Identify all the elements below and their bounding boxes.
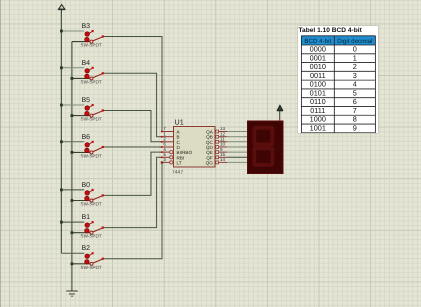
table grid xyxy=(298,26,378,133)
wire: bus to B3 upper throw xyxy=(61,30,84,32)
data table: Tabel 1.10 BCD 4-bit xyxy=(298,26,378,133)
ground symbol at bottom of rail xyxy=(66,291,78,296)
wire: QF output to display segment xyxy=(227,156,248,158)
pin 14 (QG) right stub with bubble xyxy=(206,157,227,165)
wire: B0 pole to 7447 pin xyxy=(104,152,162,195)
pin 1 (B) left stub xyxy=(161,131,180,139)
wire: B3 pole to 7447 pin xyxy=(104,37,162,132)
power terminal (up arrow) above display xyxy=(277,105,283,121)
junction on ground rail at B5 xyxy=(71,114,74,117)
switch B0 (SW-SPDT) xyxy=(81,182,104,207)
svg-text:4: 4 xyxy=(352,79,356,88)
svg-text:B4: B4 xyxy=(82,60,91,67)
left window edge line xyxy=(0,0,2,307)
wire: left vertical bus from power terminal down to B2 xyxy=(60,12,62,253)
svg-text:14: 14 xyxy=(220,157,226,162)
junction on bus at B0 xyxy=(60,189,63,192)
svg-text:SW-SPDT: SW-SPDT xyxy=(81,153,102,158)
svg-text:7447: 7447 xyxy=(172,170,183,176)
wire: ground rail to B1 lower throw xyxy=(72,232,90,234)
wire: bus to B4 upper throw xyxy=(61,67,84,69)
switch B1 (SW-SPDT) xyxy=(81,214,104,239)
svg-text:B0: B0 xyxy=(82,182,91,189)
wire: bus to B1 upper throw xyxy=(61,221,84,223)
svg-text:8: 8 xyxy=(352,114,356,123)
junction: B2 wire corner at LT pin xyxy=(161,161,163,163)
pin 12 (QB) right stub with bubble xyxy=(206,131,227,139)
junction on ground rail at B6 xyxy=(71,151,74,154)
7-segment display body xyxy=(248,121,284,174)
wire: B1 pole to 7447 pin xyxy=(104,157,162,227)
wire: B6 pole to 7447 pin xyxy=(104,146,162,148)
pin 7 (A) left stub xyxy=(161,126,181,134)
wire: ground rail to B5 lower throw xyxy=(72,115,90,117)
wire: ground rail to B4 lower throw xyxy=(72,77,90,79)
svg-text:0000: 0000 xyxy=(309,44,325,53)
svg-text:6: 6 xyxy=(352,97,356,106)
wire: ground rail to B0 lower throw xyxy=(72,200,90,202)
junction on bus at B3 xyxy=(60,30,63,33)
svg-text:0001: 0001 xyxy=(309,53,325,62)
svg-text:LT: LT xyxy=(177,160,182,165)
table title xyxy=(299,27,362,34)
wire: bus to B6 upper throw xyxy=(61,141,84,143)
pin 4 (BI/RBO) left stub xyxy=(161,147,193,155)
pin 15 (QF) right stub with bubble xyxy=(206,152,227,160)
junction on bus at B6 xyxy=(60,140,63,143)
wire: QE output to display segment xyxy=(227,151,248,153)
wire: QB output to display segment xyxy=(227,136,248,138)
wire: bus to B2 upper throw xyxy=(61,252,84,254)
pin 13 (QA) right stub with bubble xyxy=(206,126,227,134)
wire: ground rail to B2 lower throw xyxy=(72,263,90,265)
svg-text:2: 2 xyxy=(352,62,356,71)
svg-text:1000: 1000 xyxy=(309,114,325,123)
wire: vertical ground rail from B3 lower throw down to ground xyxy=(71,42,73,291)
wire: ground rail to B6 lower throw xyxy=(72,151,90,153)
pin 6 (D) left stub xyxy=(161,142,181,150)
switch B2 (SW-SPDT) xyxy=(81,245,104,270)
svg-text:B1: B1 xyxy=(82,214,91,221)
wire: B4 pole to 7447 pin xyxy=(104,73,162,136)
switch B6 (SW-SPDT) xyxy=(81,134,104,159)
svg-text:1: 1 xyxy=(352,53,356,62)
pin 9 (QE) right stub with bubble xyxy=(206,147,227,155)
svg-text:B5: B5 xyxy=(82,97,91,104)
wire: QC output to display segment xyxy=(227,141,248,143)
junction on ground rail at B4 xyxy=(71,77,74,80)
svg-text:9: 9 xyxy=(352,123,356,132)
svg-text:0: 0 xyxy=(352,44,356,53)
svg-text:SW-SPDT: SW-SPDT xyxy=(81,234,102,239)
pin 10 (QD) right stub with bubble xyxy=(206,142,227,150)
pin 5 (RBI) left stub xyxy=(161,152,184,160)
junction on ground rail at B0 xyxy=(71,199,74,202)
wire: QD output to display segment xyxy=(227,146,248,148)
svg-text:U1: U1 xyxy=(175,118,184,127)
wire: ground rail to B3 lower throw xyxy=(72,41,90,43)
svg-text:B3: B3 xyxy=(82,23,91,30)
svg-text:3: 3 xyxy=(352,70,356,79)
switch B4 (SW-SPDT) xyxy=(81,60,104,85)
power terminal (up arrow) at top of left bus xyxy=(58,5,65,13)
pin 3 (LT) left stub xyxy=(161,157,182,165)
wire: B5 pole to 7447 pin xyxy=(104,111,162,142)
svg-text:B2: B2 xyxy=(82,245,91,252)
svg-text:QG: QG xyxy=(206,160,214,165)
display segments (unlit 8) xyxy=(254,128,272,165)
wire: bus to B0 upper throw xyxy=(61,189,84,191)
svg-text:1001: 1001 xyxy=(309,123,325,132)
op IC U1 7447 body xyxy=(174,127,216,168)
svg-text:SW-SPDT: SW-SPDT xyxy=(81,43,102,48)
junction on bus at B1 xyxy=(60,221,63,224)
svg-text:0010: 0010 xyxy=(309,62,325,71)
svg-text:SW-SPDT: SW-SPDT xyxy=(81,202,102,207)
svg-text:0111: 0111 xyxy=(310,105,325,114)
svg-text:B6: B6 xyxy=(82,134,91,141)
switch B3 (SW-SPDT) xyxy=(81,23,104,48)
svg-text:5: 5 xyxy=(352,88,356,97)
junction on ground rail at B2 xyxy=(71,262,74,265)
junction on bus at B4 xyxy=(60,66,63,69)
svg-text:SW-SPDT: SW-SPDT xyxy=(81,117,102,122)
pin 11 (QC) right stub with bubble xyxy=(206,137,227,145)
svg-text:0110: 0110 xyxy=(309,97,325,106)
svg-text:SW-SPDT: SW-SPDT xyxy=(81,265,102,270)
svg-text:SW-SPDT: SW-SPDT xyxy=(81,79,102,84)
svg-text:0011: 0011 xyxy=(309,70,325,79)
svg-text:7: 7 xyxy=(352,105,356,114)
pin 2 (C) left stub xyxy=(161,137,181,145)
junction on bus at B5 xyxy=(60,104,63,107)
junction on ground rail at B1 xyxy=(71,231,74,234)
wire: B2 pole to 7447 pin xyxy=(104,162,162,258)
wire: QA output to display segment xyxy=(227,131,248,133)
switch B5 (SW-SPDT) xyxy=(81,97,104,122)
header row fill xyxy=(301,35,375,44)
svg-text:0100: 0100 xyxy=(309,79,325,88)
svg-text:0101: 0101 xyxy=(309,88,325,97)
wire: QG output to display segment xyxy=(227,161,248,163)
wire: bus to B5 upper throw xyxy=(61,104,84,106)
